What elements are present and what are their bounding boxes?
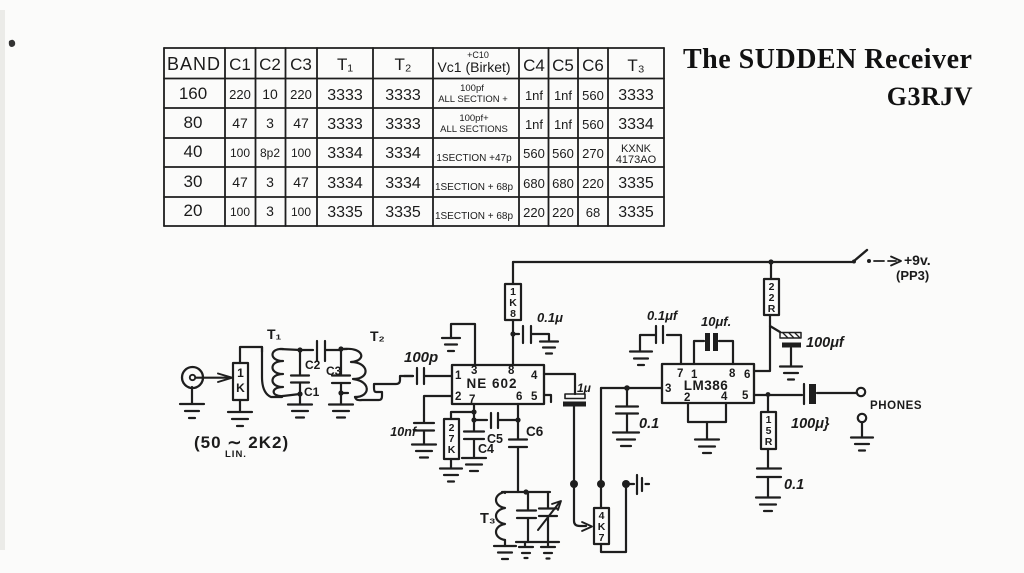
wire pot top to T1 [240, 347, 262, 363]
node dot T2 top [338, 346, 343, 351]
svg-text:1: 1 [455, 370, 462, 382]
svg-text:1nf: 1nf [554, 88, 572, 103]
svg-text:1nf: 1nf [554, 117, 572, 132]
phones jack terminal top [857, 388, 865, 396]
table grid [164, 48, 664, 226]
svg-text:1: 1 [691, 369, 698, 381]
ground (0.1 input) [613, 433, 639, 447]
svg-text:220: 220 [229, 87, 251, 102]
svg-text:560: 560 [582, 117, 604, 132]
wire arrow into pot [196, 374, 232, 383]
svg-text:T₃: T₃ [480, 511, 496, 527]
svg-text:100: 100 [291, 146, 311, 160]
svg-text:3: 3 [266, 203, 274, 219]
ground (trimmer) [541, 542, 555, 559]
svg-text:40: 40 [184, 142, 203, 161]
svg-text:3335: 3335 [618, 175, 654, 192]
wire 4K7 bottom loop [601, 484, 626, 552]
svg-text:6: 6 [516, 391, 522, 403]
wire pin2 to 10nf [424, 396, 452, 415]
ground (antenna) [180, 387, 204, 418]
potentiometer 4K7 volume [594, 508, 609, 544]
tank bottom wire [516, 541, 559, 543]
svg-text:3: 3 [266, 174, 274, 190]
svg-text:ALL SECTIONS: ALL SECTIONS [440, 124, 508, 135]
potentiometer 1K [233, 363, 248, 400]
wire wiper arrow into 4K7 [574, 484, 592, 531]
wire pin7 up [667, 335, 681, 364]
svg-text:NE 602: NE 602 [466, 376, 517, 391]
resistor 1K8 [505, 284, 521, 320]
svg-text:Vc1 (Birket): Vc1 (Birket) [437, 59, 510, 75]
transformer T2 [341, 328, 413, 400]
wire 4K7 top to LM386 pin3 net [600, 388, 602, 508]
svg-text:C1: C1 [229, 55, 251, 74]
svg-text:7: 7 [677, 368, 683, 380]
svg-text:100: 100 [230, 146, 250, 160]
svg-text:3334: 3334 [618, 116, 654, 133]
svg-text:C1: C1 [304, 385, 320, 399]
wire pin8 up [512, 320, 514, 365]
svg-text:1SECTION +47p: 1SECTION +47p [436, 153, 512, 164]
svg-text:10: 10 [262, 86, 278, 102]
svg-text:560: 560 [523, 146, 545, 161]
IC U1 NE602 [452, 365, 544, 406]
node dot pin5/15R [766, 392, 771, 397]
svg-text:T₂: T₂ [395, 55, 412, 74]
svg-text:G3RJV: G3RJV [887, 82, 973, 111]
antenna input connector J1 [182, 367, 203, 388]
svg-text:3334: 3334 [385, 175, 421, 192]
svg-text:BAND: BAND [167, 54, 221, 74]
svg-text:100pf: 100pf [460, 83, 484, 94]
resistor 15R [761, 412, 776, 449]
node dot pin6/C5 [515, 417, 520, 422]
svg-text:8: 8 [508, 365, 515, 377]
svg-text:68: 68 [586, 205, 600, 220]
svg-text:560: 560 [582, 88, 604, 103]
svg-text:3333: 3333 [385, 87, 421, 104]
svg-text:100p: 100p [404, 349, 438, 366]
svg-text:1SECTION + 68p: 1SECTION + 68p [435, 182, 514, 193]
svg-text:8: 8 [729, 368, 736, 380]
svg-text:270: 270 [582, 146, 604, 161]
svg-text:3: 3 [665, 383, 671, 395]
svg-text:20: 20 [184, 201, 203, 220]
svg-text:C6: C6 [526, 424, 544, 439]
svg-text:160: 160 [179, 84, 207, 103]
svg-text:7: 7 [599, 532, 605, 544]
svg-text:T₁: T₁ [337, 55, 353, 74]
T3 tank top wire [502, 491, 550, 493]
wire LM386 pin3 [601, 387, 662, 389]
svg-text:0.1: 0.1 [784, 477, 804, 493]
capacitor 10nf [390, 415, 434, 444]
ground (C4) [462, 458, 486, 471]
wire pin5 out [754, 394, 802, 396]
stray scan mark [9, 40, 15, 47]
svg-text:100μ}: 100μ} [791, 416, 830, 432]
svg-text:R: R [765, 436, 773, 448]
ground (27K) [440, 459, 462, 482]
svg-text:C5: C5 [487, 432, 503, 446]
svg-text:220: 220 [290, 87, 312, 102]
ground (0.1uf pin7) [630, 352, 652, 366]
svg-text:220: 220 [552, 205, 574, 220]
ground (phones) [851, 422, 873, 451]
svg-text:The SUDDEN Receiver: The SUDDEN Receiver [683, 44, 972, 75]
svg-text:K: K [448, 444, 456, 456]
capacitor T3 fixed [517, 492, 536, 542]
capacitor 100u output electrolytic [791, 384, 830, 432]
ground (C1) [288, 394, 312, 418]
svg-text:47: 47 [232, 115, 248, 131]
wire pin4 right [544, 374, 575, 394]
capacitor C2 [300, 341, 341, 372]
svg-text:3333: 3333 [327, 87, 363, 104]
svg-text:T₃: T₃ [627, 56, 644, 75]
svg-text:PHONES: PHONES [870, 400, 922, 412]
svg-text:3334: 3334 [385, 145, 421, 162]
svg-text:5: 5 [531, 391, 538, 403]
svg-text:0.1μ: 0.1μ [537, 310, 563, 325]
svg-text:(PP3): (PP3) [896, 268, 929, 283]
capacitor 100uf (supply) [770, 326, 846, 366]
+9V supply rail [513, 261, 854, 263]
ground (T3 fixed cap) [519, 542, 533, 558]
svg-text:4: 4 [721, 391, 728, 403]
ground (10nf) [412, 445, 436, 458]
ground (pin 3) [442, 338, 460, 351]
Vc1 column cells [435, 83, 514, 222]
capacitor C3 [326, 349, 350, 393]
svg-text:3333: 3333 [385, 116, 421, 133]
svg-text:47: 47 [293, 174, 309, 190]
svg-text:ALL SECTION +: ALL SECTION + [438, 94, 508, 105]
wire pin6 to 22R [754, 315, 770, 371]
transformer T3 [480, 492, 505, 546]
ground (C3) [329, 393, 353, 418]
svg-text:30: 30 [184, 172, 203, 191]
capacitor C4 [464, 420, 494, 457]
svg-text:C3: C3 [290, 55, 312, 74]
svg-text:3334: 3334 [327, 175, 363, 192]
svg-text:100μf: 100μf [806, 335, 846, 351]
capacitor 100p [404, 349, 452, 384]
svg-text:3335: 3335 [327, 204, 363, 221]
svg-text:100: 100 [230, 205, 250, 219]
Vc1 header [437, 50, 510, 75]
ground (zobel) [756, 498, 780, 512]
svg-text:220: 220 [582, 176, 604, 191]
svg-text:1: 1 [237, 366, 244, 380]
svg-text:560: 560 [552, 146, 574, 161]
capacitor C1 [291, 350, 320, 399]
capacitor C6 [509, 424, 544, 492]
ground (0.1u pin8) [540, 342, 558, 354]
switch S1 [852, 250, 901, 266]
svg-text:LIN.: LIN. [225, 449, 247, 460]
svg-text:680: 680 [552, 176, 574, 191]
svg-text:3335: 3335 [618, 204, 654, 221]
transformer T1 [262, 326, 300, 397]
node dot pin7 b [471, 417, 476, 422]
svg-text:47: 47 [232, 174, 248, 190]
svg-text:3333: 3333 [618, 87, 654, 104]
node dot 4K7 top [597, 480, 605, 488]
node dot pin3/0.1 [624, 385, 630, 391]
svg-text:4173AO: 4173AO [616, 154, 657, 166]
svg-text:2: 2 [455, 391, 461, 403]
capacitor 0.1u (NE602 pin 8) [513, 310, 563, 343]
resistor 27K [444, 419, 459, 459]
svg-text:2: 2 [684, 392, 690, 404]
node dot volume wiper [570, 480, 578, 488]
svg-text:C5: C5 [552, 56, 574, 75]
svg-text:R: R [768, 303, 776, 315]
svg-text:1nf: 1nf [525, 117, 543, 132]
node dot T3 top [523, 489, 528, 494]
wire to 27K [451, 412, 474, 419]
svg-text:1SECTION + 68p: 1SECTION + 68p [435, 211, 514, 222]
svg-text:80: 80 [184, 113, 203, 132]
svg-text:1nf: 1nf [525, 88, 543, 103]
svg-text:100: 100 [291, 205, 311, 219]
wire pin3 to ground [451, 324, 475, 365]
IC U2 LM386 [662, 364, 754, 404]
svg-text:T₂: T₂ [370, 328, 385, 344]
wire pins 2,4 to ground [688, 403, 726, 439]
svg-text:3: 3 [471, 365, 477, 377]
wire pin7 down [473, 404, 475, 420]
svg-text:6: 6 [744, 369, 750, 381]
svg-text:+9v.: +9v. [904, 252, 931, 268]
svg-text:10μf.: 10μf. [701, 314, 731, 329]
node dot 4K7 bottom net [622, 480, 630, 488]
svg-text:8p2: 8p2 [260, 146, 280, 160]
table header text [167, 54, 645, 75]
wire pin6 down [517, 404, 519, 439]
jack stub symbol [626, 475, 649, 494]
svg-text:0.1: 0.1 [639, 416, 659, 432]
node dot rail/22R [768, 259, 773, 264]
svg-text:680: 680 [523, 176, 545, 191]
svg-text:T₁: T₁ [267, 326, 282, 342]
pin 5 stub [544, 395, 551, 402]
svg-text:C6: C6 [582, 56, 604, 75]
svg-text:3334: 3334 [327, 145, 363, 162]
wire pin5 to 15R [767, 395, 769, 412]
node dot T2 bottom [338, 390, 343, 395]
table body text [179, 84, 657, 221]
wire 1K8 to rail [512, 262, 514, 284]
node dot pin8/0.1u [510, 331, 515, 336]
svg-text:5: 5 [742, 390, 749, 402]
capacitor 0.1 (LM386 input) [616, 388, 659, 432]
label +9v. (PP3) [896, 252, 931, 283]
capacitor 1u electrolytic [563, 381, 592, 484]
resistor 22R [764, 279, 779, 315]
svg-text:C2: C2 [305, 358, 321, 372]
svg-text:47: 47 [293, 115, 309, 131]
svg-text:3333: 3333 [327, 116, 363, 133]
ground (LM386 pins 2,4) [695, 440, 719, 454]
svg-text:10nf: 10nf [390, 425, 418, 439]
svg-text:220: 220 [523, 205, 545, 220]
svg-text:8: 8 [510, 308, 516, 320]
capacitor C5 [474, 413, 518, 446]
node dot T1 top [297, 347, 302, 352]
node dot pin7 a [471, 409, 476, 414]
svg-text:C4: C4 [523, 56, 545, 75]
svg-text:C2: C2 [259, 55, 281, 74]
svg-text:1μ: 1μ [577, 381, 592, 395]
svg-text:0.1μf: 0.1μf [647, 308, 679, 323]
svg-text:C3: C3 [326, 364, 342, 378]
capacitor 0.1uf (LM386 pin7) [640, 308, 679, 351]
ground (T3 coil) [494, 546, 516, 559]
trimmer capacitor VC [538, 492, 561, 542]
svg-text:3335: 3335 [385, 204, 421, 221]
svg-text:3: 3 [266, 115, 274, 131]
svg-text:K: K [236, 381, 245, 395]
node dot T1 bottom [297, 391, 302, 396]
ground (100uf supply) [780, 367, 802, 380]
wire to phones [817, 392, 856, 394]
svg-text:100pf+: 100pf+ [459, 113, 489, 124]
phones jack terminal bottom [858, 414, 866, 422]
capacitor 0.1 zobel [757, 449, 804, 497]
wire 22R top to rail [770, 262, 772, 279]
ground (pot 1K) [228, 400, 252, 426]
svg-text:4: 4 [531, 370, 538, 382]
capacitor 10uf (pins 1-8) [694, 314, 733, 364]
